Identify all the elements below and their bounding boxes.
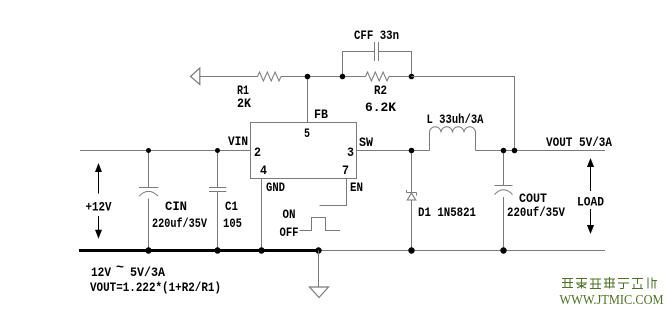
node FB junction <box>305 74 311 80</box>
annotation ON OFF pulse <box>300 218 341 231</box>
wire output rail right segment <box>476 150 606 152</box>
node COUT top <box>501 148 507 154</box>
svg-text:~: ~ <box>116 260 124 275</box>
svg-text:5: 5 <box>304 126 310 141</box>
svg-text:220uf/35V: 220uf/35V <box>152 216 207 231</box>
node C1 top junction <box>215 148 220 153</box>
svg-text:VIN: VIN <box>228 134 248 149</box>
node CIN top junction <box>146 148 151 153</box>
capacitor CIN <box>139 151 158 251</box>
svg-text:7: 7 <box>342 163 349 178</box>
svg-text:COUT: COUT <box>519 191 547 206</box>
svg-text:105: 105 <box>223 216 242 231</box>
svg-text:VOUT=1.222*(1+R2/R1): VOUT=1.222*(1+R2/R1) <box>90 280 221 295</box>
wire EN pin 7 <box>320 179 347 206</box>
wire ground rail thin segment <box>319 250 605 252</box>
capacitor CFF branch left <box>343 52 375 77</box>
capacitor CFF branch right <box>379 52 412 77</box>
svg-text:3: 3 <box>347 145 354 160</box>
svg-text:2K: 2K <box>237 96 251 111</box>
wire ground rail thick segment <box>79 249 319 252</box>
op-amp U1 regulator IC box <box>251 123 357 179</box>
inductor L <box>430 127 476 151</box>
wire GND pin 4 <box>261 179 263 251</box>
annotation LOAD arrow <box>587 158 594 234</box>
node diode bottom <box>408 247 414 253</box>
svg-text:L 33uh/3A: L 33uh/3A <box>427 112 484 127</box>
svg-text:OFF: OFF <box>280 225 299 240</box>
resistor R1 <box>258 72 282 81</box>
capacitor C1 <box>209 151 226 251</box>
annotation watermark CJK glyph strokes <box>562 277 657 289</box>
svg-text:R2: R2 <box>374 83 387 98</box>
wire R1 to FB node <box>281 76 342 78</box>
wire input top rail <box>80 150 251 152</box>
wire feedback to output node <box>412 77 515 151</box>
wire arrow to R1 <box>200 76 258 78</box>
svg-text:GND: GND <box>266 180 285 195</box>
capacitor COUT <box>495 151 513 251</box>
label input output note 12V to 5V/3A <box>91 260 165 280</box>
svg-text:EN: EN <box>350 180 363 195</box>
capacitor CFF plates <box>375 42 379 61</box>
svg-text:FB: FB <box>314 107 328 122</box>
node GND pin bottom <box>258 247 264 253</box>
svg-text:6.2K: 6.2K <box>365 100 396 115</box>
diode D1 <box>407 151 417 251</box>
svg-text:WWW.JTMIC.COM: WWW.JTMIC.COM <box>560 293 664 308</box>
svg-text:220uf/35V: 220uf/35V <box>507 205 565 220</box>
wire R2 right <box>389 76 412 78</box>
wire SW output rail left segment <box>356 150 430 152</box>
node COUT bottom <box>500 247 506 253</box>
node CIN bottom junction <box>145 247 151 253</box>
node ground junction <box>315 247 321 253</box>
svg-text:5V/3A: 5V/3A <box>130 265 165 280</box>
node arrow feedback output <box>191 68 200 85</box>
node C1 bottom junction <box>214 247 220 253</box>
svg-text:D1 1N5821: D1 1N5821 <box>418 205 476 220</box>
svg-text:4: 4 <box>260 163 267 178</box>
wire FB pin 5 vertical <box>307 77 309 123</box>
node feedback output junction <box>512 148 518 154</box>
node diode top <box>409 148 415 154</box>
svg-text:ON: ON <box>283 207 296 222</box>
svg-text:VOUT 5V/3A: VOUT 5V/3A <box>546 135 612 150</box>
svg-text:LOAD: LOAD <box>577 195 604 210</box>
resistor R2 <box>366 72 390 81</box>
svg-text:+12V: +12V <box>86 200 112 215</box>
node R2 right junction <box>409 74 415 80</box>
wire ground stem <box>318 251 320 288</box>
svg-text:2: 2 <box>254 145 261 160</box>
svg-text:12V: 12V <box>91 265 111 280</box>
svg-text:C1: C1 <box>225 199 238 214</box>
svg-text:SW: SW <box>359 135 373 150</box>
svg-text:CIN: CIN <box>165 199 187 214</box>
annotation +12V arrow <box>95 163 102 239</box>
wire R2 left <box>342 76 366 78</box>
svg-text:CFF 33n: CFF 33n <box>354 28 399 43</box>
node R2 left junction <box>340 74 346 80</box>
ground <box>310 287 329 298</box>
